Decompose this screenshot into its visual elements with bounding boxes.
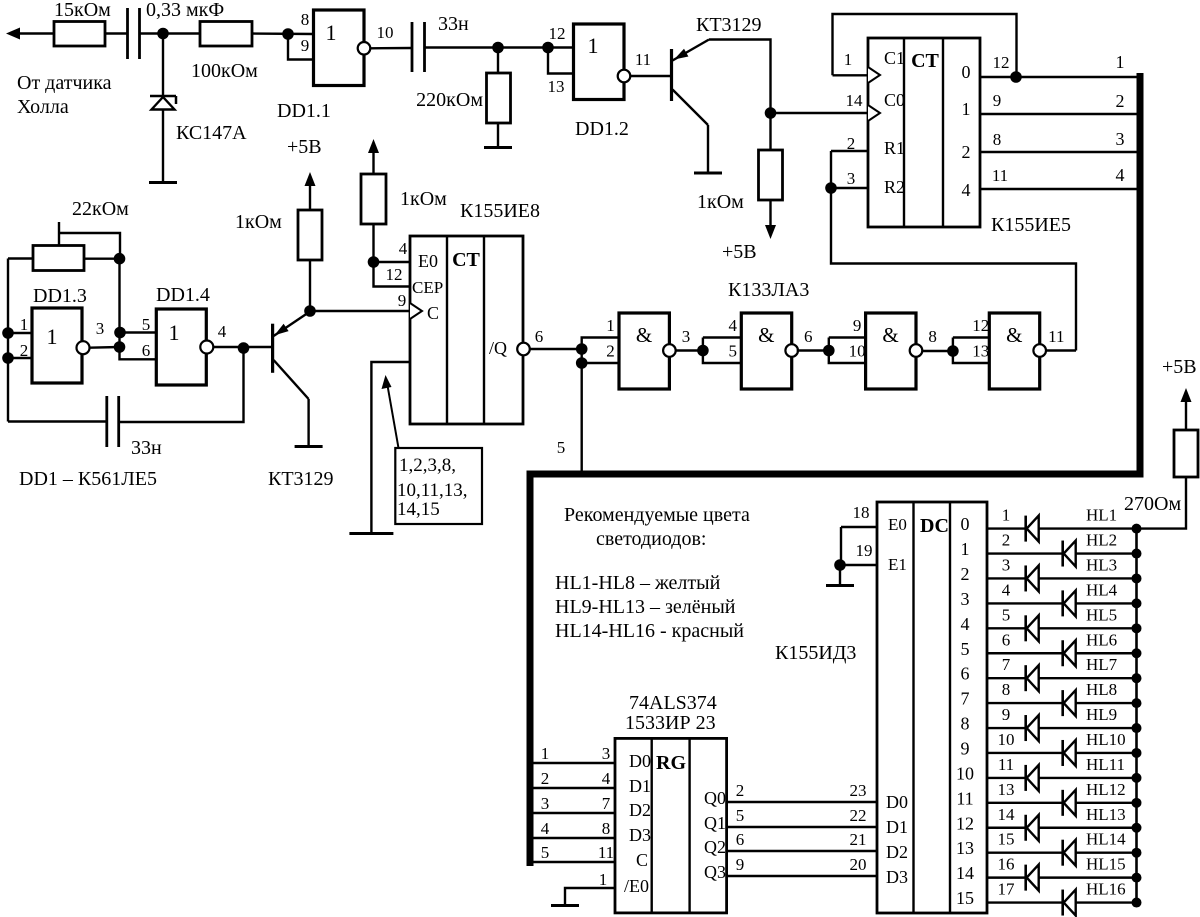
svg-text:1533ИР 23: 1533ИР 23 (625, 712, 716, 734)
wire (425, 46, 574, 48)
input feed wires (953, 336, 989, 338)
svg-text:Q2: Q2 (704, 837, 726, 857)
output wire pin 1 (987, 527, 1137, 529)
ground (694, 172, 722, 175)
LED HL16 (1061, 890, 1064, 916)
node junction HL2 (1132, 549, 1142, 559)
output wire pin 13 (987, 802, 1137, 804)
LED HL14 (1061, 840, 1064, 866)
resistor 1kOhm right (769, 113, 771, 150)
output wire pin 8 (987, 702, 1137, 704)
LED HL7 (1024, 665, 1027, 691)
svg-text:HL10: HL10 (1086, 730, 1126, 749)
svg-text:2: 2 (736, 781, 745, 800)
svg-text:HL8: HL8 (1086, 680, 1117, 699)
node junction pin6 (114, 341, 126, 353)
svg-text:1: 1 (961, 539, 970, 559)
svg-text:D0: D0 (629, 751, 651, 771)
svg-text:+5В: +5В (722, 241, 757, 263)
svg-text:4: 4 (1116, 165, 1125, 185)
svg-text:К155ИЕ5: К155ИЕ5 (991, 214, 1071, 236)
wire zener bottom (162, 110, 164, 183)
svg-text:HL14-HL16 - красный: HL14-HL16 - красный (555, 620, 744, 642)
svg-text:HL11: HL11 (1086, 755, 1125, 774)
svg-text:К155ИД3: К155ИД3 (775, 642, 856, 664)
wire zener top (162, 34, 164, 97)
resistor 270 Ohm (1174, 430, 1198, 477)
svg-text:С: С (427, 303, 439, 323)
svg-text:HL2: HL2 (1086, 531, 1117, 550)
svg-text:3: 3 (1116, 129, 1125, 149)
svg-text:D1: D1 (629, 776, 651, 796)
svg-text:22: 22 (850, 806, 867, 825)
wire /E0 to ground (565, 888, 615, 905)
node junction HL10 (1132, 748, 1142, 758)
pin 18 wire E0 (841, 526, 877, 528)
svg-text:9: 9 (736, 855, 745, 874)
pin 10 wire (370, 47, 412, 50)
transistor KT3129 collector (673, 90, 709, 126)
node junction HL4 (1132, 598, 1142, 608)
nand gate К133ЛА3 #1 (619, 313, 669, 389)
svg-text:HL16: HL16 (1086, 880, 1126, 899)
capacitor 33n top (411, 22, 414, 72)
node junction VT2 collector (304, 305, 316, 317)
capacitor 0.33uF (126, 8, 129, 59)
svg-text:C0: C0 (884, 90, 905, 110)
svg-text:19: 19 (856, 541, 873, 560)
svg-text:КТ3129: КТ3129 (696, 14, 762, 36)
svg-text:3: 3 (847, 169, 856, 188)
svg-text:/E0: /E0 (624, 876, 649, 896)
pin 4 wire E0 (374, 261, 411, 263)
pin 2 wire (8, 357, 32, 359)
svg-text:10,11,13,: 10,11,13, (397, 480, 468, 501)
zener diode KS147A (150, 95, 176, 98)
svg-text:11: 11 (998, 755, 1014, 774)
node junction DD1.2 input (542, 42, 554, 54)
svg-text:3: 3 (96, 319, 105, 338)
arrow output left (6, 28, 20, 40)
LED HL4 (1061, 590, 1064, 616)
svg-text:15: 15 (956, 888, 974, 908)
svg-text:D3: D3 (886, 867, 908, 887)
node junction HL11 (1132, 773, 1142, 783)
input feed wires (703, 336, 741, 338)
svg-text:/Q: /Q (489, 338, 507, 358)
node junction Q out (576, 343, 588, 355)
node junction HL15 (1132, 873, 1142, 883)
svg-text:33н: 33н (131, 437, 162, 459)
svg-text:14: 14 (846, 91, 864, 110)
input feed wires (829, 336, 866, 338)
node junction HL12 (1132, 798, 1142, 808)
svg-text:12: 12 (549, 24, 566, 43)
node junction HL9 (1132, 723, 1142, 733)
svg-text:2: 2 (1116, 91, 1125, 111)
output wire pin 15 (987, 851, 1137, 853)
transistor KT3129 base bar (670, 49, 673, 101)
transistor KT3129 emitter (673, 40, 710, 61)
svg-text:4: 4 (962, 180, 971, 200)
svg-text:13: 13 (548, 77, 565, 96)
svg-text:0: 0 (961, 514, 970, 534)
svg-text:1кОм: 1кОм (400, 188, 447, 210)
svg-text:14: 14 (956, 863, 974, 883)
svg-text:16: 16 (998, 855, 1015, 874)
node junction (947, 345, 959, 357)
svg-text:2: 2 (606, 342, 615, 361)
grounded pins wire (371, 362, 410, 533)
wire to ground (839, 565, 841, 585)
output wire Q0 pin 2 to 23 (727, 801, 877, 803)
svg-text:3: 3 (541, 794, 550, 813)
svg-text:D3: D3 (629, 825, 651, 845)
svg-text:&: & (636, 323, 652, 347)
wire DD1.4 out (213, 346, 272, 348)
counter K155IE8 (410, 236, 523, 424)
wire emitter node up (309, 260, 311, 311)
input wire 1 (530, 762, 615, 764)
LED HL2 (1061, 541, 1064, 567)
svg-text:12: 12 (972, 316, 989, 335)
svg-text:1: 1 (962, 99, 971, 119)
svg-text:17: 17 (998, 880, 1016, 899)
node junction VT1 (765, 107, 777, 119)
svg-text:18: 18 (853, 503, 870, 522)
svg-text:2: 2 (541, 769, 550, 788)
svg-text:5: 5 (142, 315, 151, 334)
node junction HL7 (1132, 673, 1142, 683)
wire gate3 out (923, 350, 953, 352)
clock input C (410, 303, 422, 319)
wire to pin 5 (120, 331, 156, 333)
arrow +5V up (309, 184, 311, 210)
svg-text:6: 6 (804, 327, 813, 346)
LED HL13 (1024, 815, 1027, 841)
svg-text:4: 4 (729, 316, 738, 335)
feedback wire pin12 to C1 (833, 14, 1017, 77)
svg-text:3: 3 (682, 327, 691, 346)
svg-text:СТ: СТ (452, 249, 480, 271)
wire emitter to supply node (709, 40, 771, 109)
svg-text:2: 2 (961, 564, 970, 584)
svg-text:22кОм: 22кОм (72, 198, 129, 220)
output wire pin 3 (987, 577, 1137, 579)
resistor 220kOhm (497, 48, 499, 74)
node junction (823, 345, 835, 357)
wire down to gate inputs (118, 259, 120, 347)
svg-text:2: 2 (962, 142, 971, 162)
node junction DD1.1 input (282, 28, 294, 40)
svg-text:5: 5 (729, 342, 738, 361)
node junction R2 (825, 182, 837, 194)
node junction pin12 (1010, 71, 1022, 83)
LED bus wire (1135, 529, 1138, 903)
nand gate К133ЛА3 #2 (741, 313, 791, 389)
transistor KT3129 emitter (274, 312, 310, 337)
reset feedback wire from gate pin 11 (831, 188, 1076, 351)
svg-text:9: 9 (853, 316, 862, 335)
svg-text:+5В: +5В (1162, 356, 1197, 378)
svg-text:1: 1 (1116, 52, 1125, 72)
ground (484, 146, 512, 149)
wire (105, 32, 127, 34)
wire output to hall sensor (16, 32, 55, 34)
svg-text:HL7: HL7 (1086, 655, 1118, 674)
node junction (697, 345, 709, 357)
svg-text:8: 8 (993, 130, 1002, 149)
output wire pin 16 (987, 876, 1137, 878)
svg-text:9: 9 (961, 738, 970, 758)
arrow +5V up (372, 152, 374, 174)
node junction (157, 28, 169, 40)
svg-text:1: 1 (1002, 506, 1011, 525)
register RG 1533IR23 (615, 738, 727, 913)
svg-text:4: 4 (218, 322, 227, 341)
svg-text:21: 21 (850, 830, 867, 849)
svg-text:10: 10 (377, 23, 394, 42)
svg-text:4: 4 (541, 819, 550, 838)
svg-text:RG: RG (656, 752, 686, 774)
LED HL10 (1061, 740, 1064, 766)
svg-text:5: 5 (961, 639, 970, 659)
resistor 1kOhm B (361, 174, 386, 224)
svg-text:HL9: HL9 (1086, 705, 1117, 724)
svg-text:10: 10 (956, 763, 974, 783)
gate DD1.2 (574, 24, 625, 100)
svg-text:20: 20 (850, 855, 867, 874)
svg-text:33н: 33н (438, 13, 469, 35)
output wire 0 pin 12 (980, 76, 1137, 78)
svg-text:6: 6 (1002, 630, 1011, 649)
svg-text:7: 7 (1002, 655, 1011, 674)
pin 3 wire R2 (831, 187, 868, 189)
svg-text:HL14: HL14 (1086, 830, 1126, 849)
node junction HL5 (1132, 623, 1142, 633)
output wire pin 2 (987, 552, 1137, 554)
svg-text:13: 13 (972, 342, 989, 361)
nand gate К133ЛА3 #3 (866, 313, 916, 389)
LED HL9 (1024, 715, 1027, 741)
svg-text:3: 3 (1002, 555, 1011, 574)
wire left rail (7, 259, 9, 422)
wire 220k to ground (497, 123, 499, 147)
svg-text:D2: D2 (886, 842, 908, 862)
node junction HL14 (1132, 848, 1142, 858)
svg-text:HL13: HL13 (1086, 805, 1126, 824)
output wire 4 pin 11 (980, 188, 1137, 190)
svg-text:E0: E0 (888, 515, 907, 534)
output wire pin 5 (987, 627, 1137, 629)
resistor 22kOhm (33, 246, 84, 271)
wire to gate pin 1 (582, 338, 619, 350)
gate DD1.4 (156, 309, 206, 385)
svg-text:270Ом: 270Ом (1124, 493, 1181, 515)
node junction pin5 (114, 327, 126, 339)
svg-text:СТ: СТ (911, 50, 939, 72)
annotation box pins 1,2,3,8,10,11,13,14,15 (395, 448, 482, 524)
svg-text:HL15: HL15 (1086, 855, 1126, 874)
svg-text:HL5: HL5 (1086, 605, 1117, 624)
decoder DC K155ID3 (877, 502, 987, 913)
pin 1 wire C1 (833, 74, 869, 76)
svg-text:1: 1 (47, 324, 58, 349)
svg-text:5: 5 (557, 438, 566, 457)
svg-text:9: 9 (993, 91, 1002, 110)
LED HL12 (1061, 790, 1064, 816)
wire (140, 32, 200, 34)
clock input C0 (868, 105, 880, 121)
svg-text:1: 1 (606, 316, 615, 335)
svg-text:4: 4 (399, 239, 408, 258)
svg-text:DC: DC (920, 515, 949, 537)
svg-text:15: 15 (998, 830, 1015, 849)
node junction 22k (114, 253, 126, 265)
svg-text:8: 8 (928, 327, 937, 346)
pin 19 wire E1 (840, 527, 842, 565)
svg-text:Q0: Q0 (704, 788, 726, 808)
svg-text:4: 4 (961, 614, 970, 634)
ground (149, 181, 177, 184)
node junction pin1 (2, 327, 14, 339)
ground (551, 904, 579, 907)
svg-text:11: 11 (992, 166, 1008, 185)
svg-text:E1: E1 (888, 555, 907, 574)
svg-text:13: 13 (956, 838, 974, 858)
node junction VT2 base (238, 342, 250, 354)
svg-text:1: 1 (326, 20, 337, 45)
svg-text:10: 10 (998, 730, 1015, 749)
svg-text:HL9-HL13 – зелёный: HL9-HL13 – зелёный (555, 596, 736, 618)
wire DD1.3 out (90, 346, 120, 349)
LED HL8 (1061, 690, 1064, 716)
svg-text:К133ЛА3: К133ЛА3 (728, 279, 809, 301)
wire gate1 out (676, 349, 703, 351)
svg-text:1: 1 (169, 320, 180, 345)
svg-text:5: 5 (541, 843, 550, 862)
svg-text:DD1.2: DD1.2 (575, 118, 629, 140)
svg-text:11: 11 (956, 788, 973, 808)
svg-text:Холла: Холла (17, 96, 69, 118)
svg-text:3: 3 (602, 744, 611, 763)
bus thick line (530, 73, 1140, 866)
svg-text:100кОм: 100кОм (191, 60, 258, 82)
svg-text:8: 8 (602, 819, 611, 838)
input wire 5 (530, 861, 615, 863)
output wire pin 17 (987, 901, 1137, 903)
svg-text:74ALS374: 74ALS374 (629, 692, 717, 714)
output wire pin 10 (987, 752, 1137, 754)
svg-text:Q3: Q3 (704, 862, 726, 882)
counter K155IE5 (868, 38, 980, 227)
input wire 3 (530, 812, 615, 814)
wire down to capacitor loop (119, 348, 244, 422)
svg-text:Q1: Q1 (704, 813, 726, 833)
output wire Q1 pin 5 to 22 (727, 826, 877, 828)
wire junction tie (581, 349, 583, 363)
svg-text:&: & (882, 323, 898, 347)
svg-text:220кОм: 220кОм (416, 89, 483, 111)
node junction HL6 (1132, 648, 1142, 658)
wire 22k top loop (58, 222, 60, 246)
wire R1 to R2 tie (830, 151, 832, 188)
svg-text:4: 4 (602, 769, 611, 788)
svg-text:4: 4 (1002, 580, 1011, 599)
node junction HL8 (1132, 698, 1142, 708)
wire 22k left (8, 257, 33, 259)
svg-text:1: 1 (541, 744, 550, 763)
svg-text:2: 2 (20, 341, 29, 360)
output wire pin 7 (987, 677, 1137, 679)
LED HL11 (1024, 765, 1027, 791)
gate DD1.3 (32, 308, 82, 383)
svg-text:HL1: HL1 (1086, 506, 1117, 525)
svg-text:DD1.1: DD1.1 (277, 100, 331, 122)
input wire 4 (530, 837, 615, 839)
resistor 100kOhm (200, 22, 252, 47)
output wire pin 14 (987, 827, 1137, 829)
pin 2 wire R1 (831, 150, 868, 152)
svg-text:7: 7 (961, 689, 970, 709)
svg-text:DD1.4: DD1.4 (156, 284, 210, 306)
LED HL6 (1061, 640, 1064, 666)
svg-text:10: 10 (849, 342, 866, 361)
svg-text:11: 11 (1048, 327, 1064, 346)
output wire pin 11 (987, 777, 1137, 779)
svg-text:2: 2 (847, 134, 856, 153)
wire to gate pin 2 (582, 362, 619, 364)
pin 13 wire loop (548, 49, 574, 74)
svg-text:6: 6 (535, 327, 544, 346)
svg-text:D2: D2 (629, 800, 651, 820)
svg-text:&: & (1006, 323, 1022, 347)
pin 1 wire (8, 332, 32, 334)
output wire Q2 pin 6 to 21 (727, 850, 877, 852)
wire gate2 out (797, 349, 829, 351)
wire to K155IE8 C input (310, 310, 410, 312)
svg-text:Рекомендуемые цвета: Рекомендуемые цвета (564, 504, 750, 526)
svg-text:5: 5 (736, 806, 745, 825)
svg-text:D0: D0 (886, 792, 908, 812)
LED HL5 (1024, 615, 1027, 641)
svg-text:1: 1 (599, 870, 608, 889)
svg-text:&: & (758, 323, 774, 347)
svg-text:E0: E0 (418, 251, 438, 271)
wire and arrow down to +5V (769, 200, 771, 226)
svg-text:1,2,3,8,: 1,2,3,8, (399, 455, 456, 476)
output wire pin 4 (987, 602, 1137, 604)
clock input C1 (868, 67, 880, 83)
node junction E1 (834, 559, 846, 571)
svg-text:6: 6 (142, 341, 151, 360)
pin 9 wire loop (288, 36, 314, 60)
svg-text:КС147А: КС147А (176, 122, 247, 144)
svg-text:1: 1 (20, 315, 29, 334)
svg-text:1: 1 (844, 50, 853, 69)
svg-text:DD1 – К561ЛЕ5: DD1 – К561ЛЕ5 (19, 468, 157, 490)
output wire 2 pin 8 (980, 151, 1137, 153)
wire 22k right (84, 258, 120, 260)
pin 11 wire (630, 75, 671, 77)
svg-text:R1: R1 (884, 138, 905, 158)
wire (252, 32, 314, 35)
svg-text:D1: D1 (886, 817, 908, 837)
svg-text:13: 13 (998, 780, 1015, 799)
svg-text:8: 8 (1002, 680, 1011, 699)
resistor 15kOhm (54, 22, 105, 47)
nand gate К133ЛА3 #4 (989, 313, 1039, 389)
